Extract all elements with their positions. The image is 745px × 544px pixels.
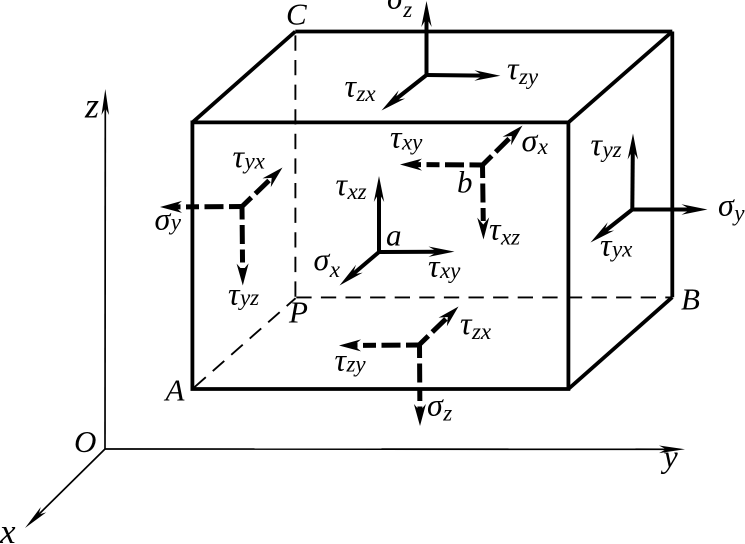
- cube rear right vertical edge: [670, 32, 674, 298]
- left face arrow tau-yx: [242, 168, 283, 207]
- center a arrow tau-xz: [374, 176, 384, 252]
- svg-text:σy: σy: [718, 187, 745, 226]
- point b arrow sigma-x: [483, 126, 523, 166]
- svg-text:P: P: [288, 295, 308, 330]
- svg-text:τzx: τzx: [345, 68, 377, 107]
- svg-text:B: B: [681, 282, 700, 317]
- top face arrow tau-zy: [427, 70, 501, 80]
- hidden edge C-P: [294, 35, 296, 297]
- svg-text:A: A: [164, 373, 186, 408]
- svg-text:z: z: [84, 86, 99, 126]
- bottom face arrow sigma-z: [414, 345, 426, 426]
- top face arrow tau-zx: [382, 75, 427, 111]
- bottom face arrow tau-zy: [339, 339, 419, 351]
- svg-text:τyz: τyz: [591, 126, 622, 162]
- svg-text:τzx: τzx: [460, 305, 492, 344]
- svg-text:τxz: τxz: [489, 211, 520, 250]
- svg-text:x: x: [0, 512, 16, 544]
- svg-text:σz: σz: [387, 0, 412, 22]
- center a arrow tau-xy: [379, 247, 455, 257]
- svg-text:b: b: [457, 165, 473, 200]
- svg-text:C: C: [286, 0, 307, 32]
- cube rear top edge: [295, 30, 672, 34]
- cube top-left depth edge: [192, 32, 295, 123]
- y axis: [105, 446, 685, 454]
- svg-text:τyx: τyx: [233, 138, 266, 174]
- hidden edge A-P: [194, 298, 295, 387]
- svg-text:τyx: τyx: [600, 227, 633, 263]
- right face arrow tau-yx: [591, 210, 633, 243]
- svg-text:τzy: τzy: [507, 50, 539, 89]
- svg-text:σx: σx: [522, 122, 549, 159]
- z axis: [102, 89, 110, 449]
- x axis: [25, 449, 105, 528]
- left face arrow tau-yz: [237, 207, 249, 286]
- cube front face edges: [192, 122, 568, 389]
- point b arrow tau-xy: [400, 159, 483, 171]
- svg-text:σz: σz: [427, 387, 452, 426]
- bottom face arrow tau-zx: [419, 307, 459, 346]
- right face arrow tau-yz: [628, 134, 638, 210]
- cube bottom-right depth edge: [568, 297, 672, 389]
- svg-text:a: a: [386, 218, 402, 253]
- top face arrow sigma-z: [421, 1, 431, 75]
- left face arrow sigma-y: [160, 201, 242, 213]
- svg-text:τxz: τxz: [336, 166, 367, 204]
- hidden edge P-B: [296, 296, 671, 298]
- svg-text:O: O: [74, 424, 96, 459]
- svg-text:y: y: [661, 438, 679, 474]
- cube top-right depth edge: [568, 32, 672, 123]
- point b arrow tau-xz: [477, 165, 489, 240]
- center a arrow sigma-x: [340, 252, 380, 286]
- right face arrow sigma-y: [632, 204, 707, 214]
- svg-text:σx: σx: [314, 241, 341, 282]
